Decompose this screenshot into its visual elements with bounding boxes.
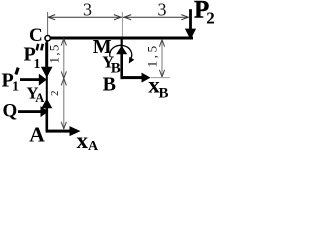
- svg-text:A: A: [29, 123, 45, 147]
- extension line at B level: [151, 77, 170, 79]
- extension line at C: [47, 12, 49, 35]
- dimension line top: [48, 15, 188, 20]
- svg-text:1: 1: [12, 80, 19, 95]
- svg-text:B: B: [103, 73, 116, 95]
- force Q: [18, 106, 48, 117]
- pin circle at C: [45, 36, 50, 41]
- svg-text:1: 1: [34, 57, 41, 72]
- force P1 prime: [20, 74, 47, 86]
- svg-text:A: A: [35, 91, 44, 105]
- moment M arc at B: [110, 45, 132, 59]
- dimension line left 1.5 span: [63, 39, 65, 129]
- svg-text:1,5: 1,5: [46, 43, 61, 63]
- reaction YB: [116, 46, 127, 78]
- force P2: [185, 9, 196, 40]
- svg-text:A: A: [88, 139, 99, 150]
- svg-text:Q: Q: [3, 101, 18, 122]
- svg-text:x: x: [77, 128, 89, 150]
- svg-text:2: 2: [49, 90, 61, 96]
- svg-text:B: B: [159, 86, 169, 102]
- left column member C-A: [46, 41, 48, 133]
- svg-text:3: 3: [158, 0, 167, 20]
- svg-text:3: 3: [83, 0, 92, 20]
- dimension line right 1.5 span: [161, 40, 163, 77]
- extension line mid tick: [121, 12, 123, 37]
- reaction YA: [41, 99, 52, 132]
- svg-text:2: 2: [206, 9, 215, 28]
- beam C to right end: [48, 37, 194, 40]
- axis xA at support A: [46, 126, 81, 136]
- force P1 double prime: [41, 43, 53, 78]
- axis xB at support B: [121, 73, 151, 83]
- right leg member to B: [121, 40, 123, 80]
- svg-text:1,5: 1,5: [144, 43, 159, 67]
